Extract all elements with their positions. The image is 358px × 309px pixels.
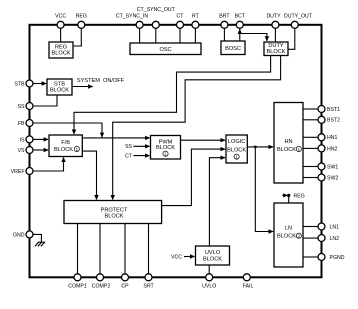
wire HN BLOCK to SW1 pin: [303, 166, 318, 168]
block REG BLOCK: [49, 42, 73, 58]
arrowhead up at BCT: [238, 29, 242, 34]
svg-text:LN: LN: [285, 225, 292, 231]
svg-text:BLOCK: BLOCK: [277, 234, 296, 240]
junction dot REG supply: [287, 194, 290, 197]
block PROTECT BLOCK: [64, 201, 162, 224]
pin labels bottom: [68, 283, 253, 289]
svg-text:LN2: LN2: [330, 236, 340, 242]
pin SW2: [318, 174, 325, 181]
pin SRT: [145, 274, 152, 281]
wire F/B BLOCK to PROTECT BLOCK top: [82, 151, 96, 199]
block OSC: [130, 43, 201, 55]
svg-text:CP: CP: [121, 283, 129, 289]
pin FAIL: [243, 274, 250, 281]
wire RT pin to OSC: [194, 28, 196, 43]
svg-text:HN1: HN1: [327, 135, 337, 141]
pin CT_SYNC_OUT: [152, 21, 159, 28]
pin IS: [26, 136, 33, 143]
pin BST2: [318, 116, 325, 123]
block DUTY BLOCK: [264, 42, 288, 56]
block UVLO BLOCK: [196, 246, 230, 265]
svg-text:BLOCK: BLOCK: [277, 147, 296, 153]
wire LN BLOCK to LN1 pin: [303, 226, 318, 228]
wire LOGIC BLOCK to HN BLOCK: [247, 146, 273, 148]
arrowhead LOGIC into LN: [269, 229, 274, 233]
svg-text:SRT: SRT: [143, 283, 154, 289]
wire STB BLOCK to SYSTEM ON/OFF: [72, 86, 92, 88]
wire UVLO BLOCK to LOGIC BLOCK: [209, 158, 225, 246]
wire HN BLOCK to HN2 pin: [303, 147, 318, 149]
svg-text:IS: IS: [20, 137, 25, 143]
blocks: [47, 41, 303, 267]
arrowhead down into PROTECT from DUTY wire: [111, 195, 115, 200]
pin DUTY: [272, 21, 279, 28]
svg-text:BLOCK: BLOCK: [105, 214, 124, 220]
wire REG supply to LN BLOCK top: [282, 195, 288, 203]
svg-text:BRT: BRT: [219, 13, 230, 19]
svg-text:REG: REG: [55, 44, 67, 50]
svg-text:VREF: VREF: [11, 169, 25, 175]
arrowhead CT into PWM: [145, 153, 150, 157]
wire DUTY pin to DUTY BLOCK top: [274, 28, 276, 42]
svg-text:PGND: PGND: [330, 255, 345, 261]
svg-text:SW2: SW2: [327, 175, 338, 181]
block STB BLOCK: [47, 79, 72, 95]
arrowhead SYSTEM ON/OFF: [88, 84, 93, 88]
svg-text:DUTY_OUT: DUTY_OUT: [284, 13, 313, 19]
arrowhead PROTECT into LOGIC: [221, 147, 226, 151]
svg-text:REG: REG: [76, 13, 87, 19]
wire LOGIC output to LN BLOCK: [255, 147, 273, 232]
wire BCT to DUTY BLOCK top: [240, 34, 267, 42]
arrowhead UVLO into LOGIC: [221, 156, 226, 160]
pin LN2: [318, 235, 325, 242]
svg-text:BLOCK: BLOCK: [52, 51, 71, 57]
svg-text:SW1: SW1: [327, 164, 338, 170]
svg-text:DUTY: DUTY: [266, 13, 281, 19]
svg-text:BOSC: BOSC: [225, 46, 241, 52]
pin CT: [177, 21, 184, 28]
wire PROTECT BLOCK to COMP2 pin: [99, 224, 101, 274]
svg-text:OSC: OSC: [159, 47, 171, 53]
arrowhead VREF into F/B bottom: [61, 157, 65, 162]
pin GND: [26, 231, 33, 238]
wire STB pin to STB BLOCK: [33, 83, 46, 85]
circled 1 of F/B: [74, 146, 79, 152]
wire HN BLOCK to HN1 pin: [303, 136, 318, 138]
wire CT_SYNC_IN pin to OSC: [139, 28, 141, 43]
junction arrowhead FB node: [100, 133, 104, 138]
pin circles: [26, 21, 325, 281]
arrowhead SS into PWM: [145, 144, 150, 148]
wire HN BLOCK to SW2 pin: [303, 177, 318, 179]
svg-text:UVLO: UVLO: [205, 250, 221, 256]
wire LN BLOCK to PGND pin: [303, 256, 318, 258]
svg-text:RT: RT: [192, 13, 200, 19]
pin BST1: [318, 106, 325, 113]
pin SS: [26, 103, 33, 110]
wire DUTY BLOCK to F/B BLOCK top: [74, 56, 271, 134]
block F/B BLOCK: [49, 135, 82, 157]
arrowhead LOGIC into HN: [269, 145, 274, 149]
arrowhead into STB BLOCK: [42, 81, 47, 85]
svg-text:VS: VS: [18, 148, 25, 154]
pin BCT: [236, 21, 243, 28]
pin STB: [26, 80, 33, 87]
pin labels top: [55, 7, 313, 19]
pin VS: [26, 147, 33, 154]
wire VREF pin to F/B BLOCK bottom: [33, 158, 64, 172]
wire SS stub to PWM BLOCK: [133, 145, 149, 147]
wire PROTECT BLOCK to CP pin: [124, 224, 126, 274]
arrowheads group: [42, 29, 291, 259]
pin DUTY_OUT: [291, 21, 298, 28]
net label SS at PWM: [125, 144, 182, 260]
wire BCT pin to BOSC: [239, 28, 241, 41]
junction dot LOGIC output: [254, 146, 257, 149]
svg-text:FAIL: FAIL: [243, 283, 254, 289]
svg-text:SS: SS: [18, 104, 25, 110]
svg-text:VCC: VCC: [171, 254, 182, 260]
arrowhead down into F/B BLOCK top: [72, 130, 76, 135]
block label texts: [50, 43, 301, 262]
wire HN BLOCK to BST2 pin: [303, 119, 318, 121]
wire VS pin to F/B BLOCK: [33, 149, 48, 151]
pin SW1: [318, 163, 325, 170]
svg-text:BCT: BCT: [235, 13, 246, 19]
pin COMP1: [74, 274, 81, 281]
svg-text:BLOCK: BLOCK: [156, 145, 175, 151]
wire VCC stub to UVLO BLOCK: [184, 256, 195, 258]
svg-text:CT: CT: [125, 154, 133, 160]
block PWM BLOCK: [151, 136, 181, 160]
svg-text:UVLO: UVLO: [202, 283, 216, 289]
wire PWM BLOCK to LOGIC BLOCK: [181, 139, 226, 141]
pin REG: [78, 21, 85, 28]
svg-text:BLOCK: BLOCK: [203, 256, 222, 262]
wire IS pin to F/B BLOCK: [33, 138, 48, 140]
pin CT_SYNC_IN: [136, 21, 143, 28]
arrowhead IS into F/B: [44, 137, 49, 141]
svg-text:BLOCK: BLOCK: [54, 147, 73, 153]
arrowhead PWM into LOGIC: [221, 138, 226, 142]
IC outer boundary box: [30, 25, 322, 277]
wire CT stub to PWM BLOCK: [133, 155, 149, 157]
wire VCC pin to REG BLOCK: [60, 28, 62, 42]
svg-text:SS: SS: [125, 144, 132, 150]
svg-text:LN1: LN1: [330, 224, 340, 230]
wire GND pin to ground symbol: [33, 234, 41, 242]
svg-text:STB: STB: [14, 81, 25, 87]
arrowhead REG supply at LN: [283, 193, 288, 197]
arrowhead F/B to PWM: [145, 136, 150, 140]
wire STB BLOCK bottom to SS pin: [33, 95, 57, 106]
arrowhead VS into F/B: [44, 148, 49, 152]
svg-text:COMP1: COMP1: [68, 283, 87, 289]
pin LN1: [318, 223, 325, 230]
pin COMP2: [97, 274, 104, 281]
wire CT_SYNC_OUT pin to OSC: [155, 28, 157, 43]
svg-text:F/B: F/B: [61, 140, 70, 146]
svg-text:FB: FB: [18, 121, 25, 127]
net label REG at LN: [294, 193, 305, 199]
svg-text:HN: HN: [284, 139, 292, 145]
block HN BLOCK: [274, 103, 303, 184]
wire F/B BLOCK output to PWM BLOCK: [82, 137, 149, 139]
circled 1 of PWM: [163, 151, 168, 157]
circled 1 of LOGIC: [234, 154, 239, 160]
svg-text:DUTY: DUTY: [268, 43, 283, 49]
wire FB pin to F/B output node: [33, 123, 102, 138]
pin FB: [26, 120, 33, 127]
svg-text:HN2: HN2: [327, 146, 337, 152]
svg-text:COMP2: COMP2: [92, 283, 111, 289]
svg-text:SYSTEM ON/OFF: SYSTEM ON/OFF: [77, 78, 125, 84]
wire CT pin to OSC: [179, 28, 181, 43]
pin CP: [122, 274, 129, 281]
pin BRT: [221, 21, 228, 28]
pin UVLO: [206, 274, 213, 281]
wire PROTECT BLOCK to LOGIC BLOCK: [162, 149, 225, 206]
pin VCC: [57, 21, 64, 28]
arrowhead VCC into UVLO: [190, 254, 195, 258]
svg-text:LOGIC: LOGIC: [228, 139, 245, 145]
wire HN BLOCK to BST1 pin: [303, 108, 318, 110]
svg-text:CT_SYNC_OUT: CT_SYNC_OUT: [137, 7, 176, 13]
wire BRT pin to BOSC: [223, 28, 225, 41]
wire PROTECT BLOCK to SRT pin: [148, 224, 150, 274]
wire UVLO BLOCK to UVLO pin: [208, 265, 210, 274]
circled 2 of LN: [296, 233, 301, 239]
svg-text:BLOCK: BLOCK: [227, 147, 246, 153]
pin labels left: [11, 81, 25, 238]
svg-text:GND: GND: [13, 232, 25, 238]
block LOGIC BLOCK: [226, 135, 247, 163]
wire PROTECT BLOCK to COMP1 pin: [77, 224, 79, 274]
block LN BLOCK: [274, 203, 303, 267]
svg-text:STB: STB: [54, 81, 65, 87]
pin PGND: [318, 254, 325, 261]
arrowhead down into PROTECT from F/B: [94, 195, 98, 200]
svg-text:CT: CT: [177, 13, 185, 19]
svg-text:BST2: BST2: [327, 118, 340, 124]
pin HN2: [318, 145, 325, 152]
wire REG pin to REG BLOCK right side: [73, 28, 81, 46]
pin VREF: [26, 168, 33, 175]
svg-text:BLOCK: BLOCK: [267, 49, 286, 55]
pin RT: [192, 21, 199, 28]
block BOSC: [221, 41, 245, 55]
svg-text:BST1: BST1: [327, 107, 340, 113]
svg-text:BLOCK: BLOCK: [50, 88, 69, 94]
wire DUTY_OUT pin to DUTY BLOCK right side: [288, 28, 295, 49]
ground symbol: [35, 242, 45, 246]
wire DUTY BLOCK to PROTECT BLOCK top: [113, 56, 281, 200]
svg-text:VCC: VCC: [55, 13, 66, 19]
wire LN BLOCK to LN2 pin: [303, 237, 318, 239]
svg-text:CT_SYNC_IN: CT_SYNC_IN: [116, 13, 149, 19]
pin labels right: [327, 107, 345, 261]
arrowhead down into DUTY BLOCK: [265, 36, 269, 41]
svg-text:REG: REG: [294, 193, 305, 199]
circled 1 of HN: [296, 146, 301, 152]
pin HN1: [318, 134, 325, 141]
